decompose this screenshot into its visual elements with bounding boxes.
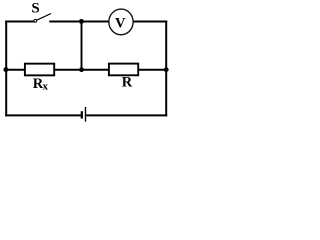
wire left vertical: [5, 21, 7, 117]
node junction middle-left: [3, 67, 8, 72]
node junction middle-right: [164, 67, 169, 72]
switch S lever: [37, 14, 51, 21]
resistor Rx body: [25, 64, 54, 76]
svg-text:V: V: [115, 15, 126, 31]
battery long plate (positive): [85, 107, 87, 122]
wire top middle segment: [49, 21, 108, 23]
node junction top: [79, 19, 84, 24]
wire top left segment: [5, 21, 34, 23]
wire middle right segment: [138, 69, 166, 71]
wire top right segment: [134, 21, 168, 23]
wire middle center segment: [54, 69, 109, 71]
voltmeter V circle: [109, 9, 133, 35]
node junction middle: [79, 67, 84, 72]
switch S contact circle: [34, 20, 37, 23]
wire bottom left segment: [5, 114, 81, 116]
wire middle left segment: [6, 69, 25, 71]
wire bottom right segment: [86, 114, 167, 116]
resistor R body: [109, 64, 138, 76]
wire middle branch vertical: [81, 22, 83, 70]
battery short plate (negative): [81, 111, 83, 118]
wire right vertical: [165, 21, 167, 117]
svg-text:S: S: [31, 1, 39, 17]
svg-text:R: R: [122, 75, 133, 91]
svg-text:Rx: Rx: [33, 76, 49, 93]
